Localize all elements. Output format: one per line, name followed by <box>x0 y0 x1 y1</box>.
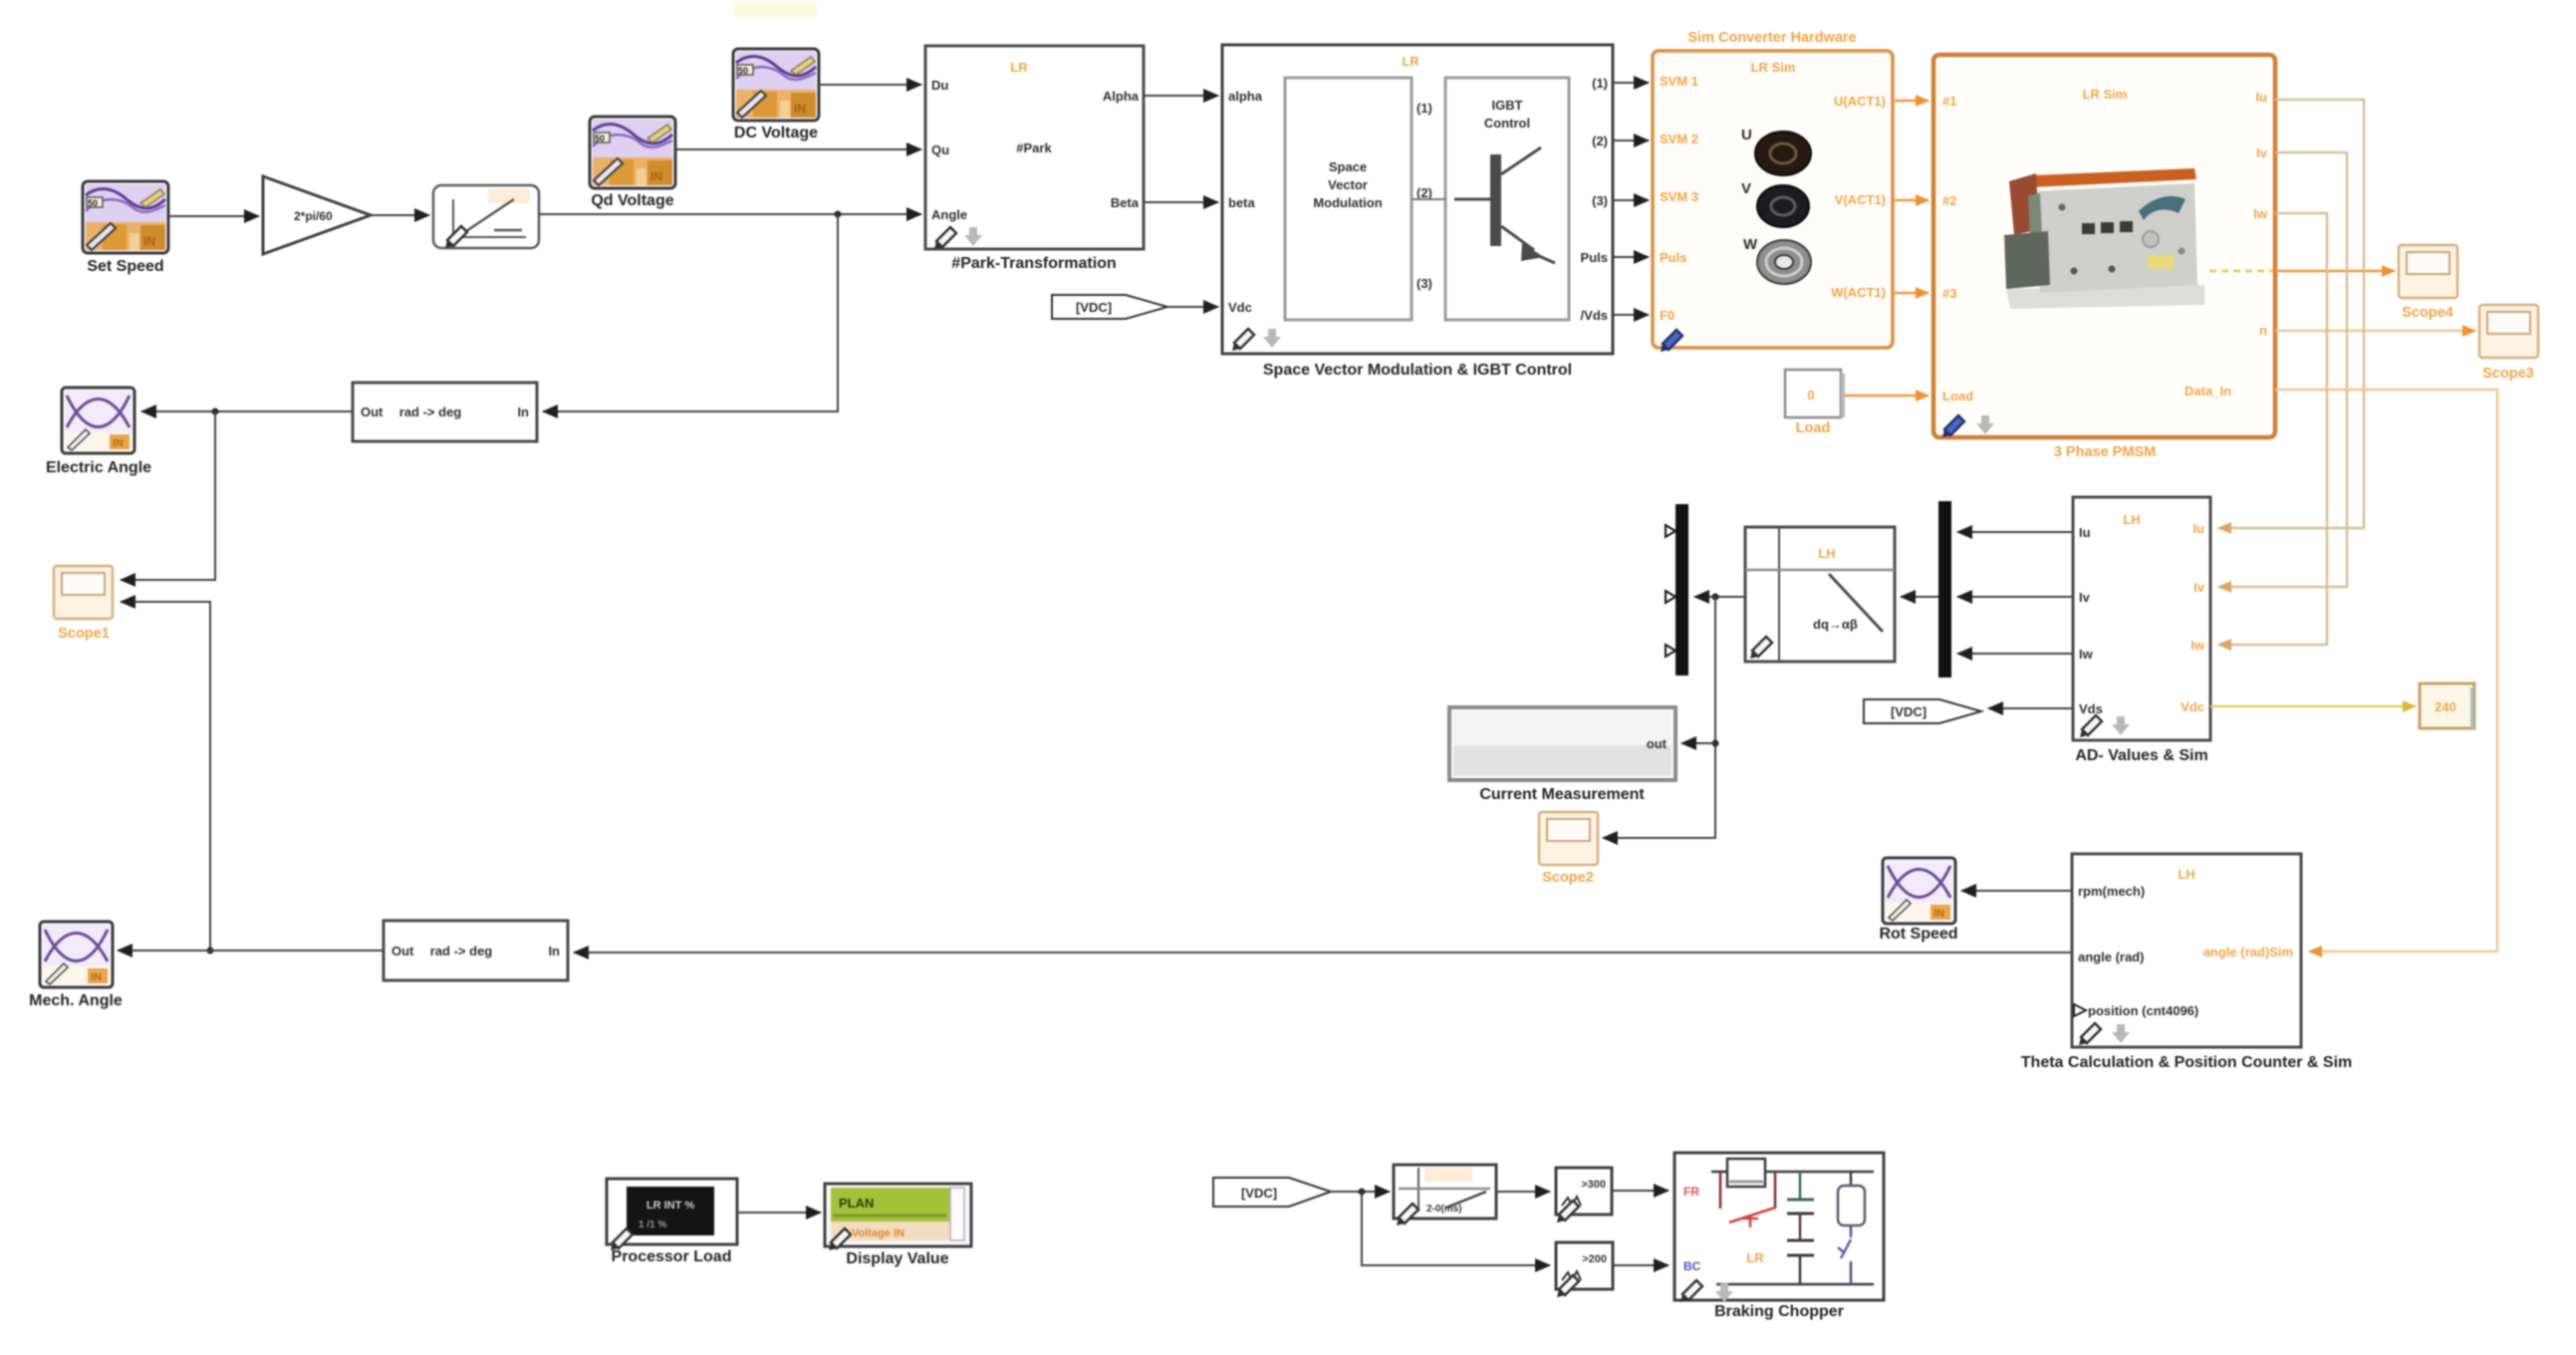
threshold block >200 <box>1556 1242 1613 1297</box>
svg-text:(2): (2) <box>1592 134 1608 148</box>
wire Park Alpha to SVM alpha <box>1144 95 1218 97</box>
svg-text:LR Sim: LR Sim <box>2083 87 2128 102</box>
wire Park Beta to SVM beta <box>1144 201 1218 203</box>
svg-text:LR: LR <box>1402 54 1419 69</box>
svg-text:In: In <box>548 944 560 958</box>
capacitor chain <box>1799 1172 1802 1199</box>
svg-text:dq→αβ: dq→αβ <box>1813 617 1858 632</box>
svg-text:LR INT %: LR INT % <box>646 1200 694 1212</box>
from tag [VDC] 3 <box>1213 1178 1331 1207</box>
svg-text:LR Sim: LR Sim <box>1751 60 1796 75</box>
Electric Angle icon <box>46 388 151 476</box>
junction on VDC wire <box>1359 1189 1366 1196</box>
svg-text:Processor Load: Processor Load <box>612 1248 732 1265</box>
chopper rate block <box>1394 1165 1496 1225</box>
wire Q Voltage to Park Qu <box>675 148 921 150</box>
svg-text:Alpha: Alpha <box>1103 89 1140 104</box>
svg-text:Puls: Puls <box>1581 250 1608 265</box>
svg-text:Du: Du <box>931 78 948 93</box>
svg-text:W(ACT1): W(ACT1) <box>1831 285 1886 300</box>
current measurement block <box>1449 707 1675 803</box>
Load block <box>1785 370 1845 436</box>
svg-text:rad -> deg: rad -> deg <box>430 944 493 958</box>
Scope3 <box>2479 305 2538 382</box>
rate limiter block <box>433 185 539 248</box>
svg-text:#1: #1 <box>1942 94 1956 109</box>
svg-text:3 Phase PMSM: 3 Phase PMSM <box>2054 444 2156 460</box>
Scope2 <box>1539 812 1598 886</box>
wire AD Iw to mux <box>1957 653 2073 655</box>
svg-text:Vdc: Vdc <box>1228 300 1252 315</box>
svg-text:Iw: Iw <box>2253 206 2268 221</box>
svg-text:U(ACT1): U(ACT1) <box>1834 94 1886 109</box>
yellow dashes from motor to edge <box>2209 270 2273 273</box>
wire processor load to display value <box>737 1212 821 1214</box>
svg-text:Load: Load <box>1796 420 1831 436</box>
wire branch angle down to Out rad->deg 1 <box>543 214 838 411</box>
svg-text:V(ACT1): V(ACT1) <box>1835 192 1886 207</box>
Scope4 <box>2399 245 2457 321</box>
wire AD Vds to VDC tag <box>1988 707 2073 709</box>
svg-text:LR: LR <box>1746 1250 1764 1265</box>
svg-text:BC: BC <box>1683 1259 1701 1273</box>
svg-text:240: 240 <box>2435 699 2456 714</box>
svg-text:Puls: Puls <box>1660 250 1686 265</box>
wire SVM out1 to converter SVM 1 <box>1613 82 1649 84</box>
inner block IGBT Control <box>1445 78 1569 320</box>
source block Set Speed <box>83 181 168 275</box>
svg-text:#3: #3 <box>1942 286 1956 301</box>
wire DC Voltage to Park Du <box>819 84 921 86</box>
svg-text:SVM 1: SVM 1 <box>1660 74 1698 89</box>
source block Q Voltage <box>590 117 675 209</box>
svg-text:[VDC]: [VDC] <box>1891 704 1927 719</box>
svg-text:Current Measurement: Current Measurement <box>1479 786 1645 803</box>
svg-text:Display Value: Display Value <box>846 1250 948 1267</box>
junction on angle wire <box>835 211 842 218</box>
bottom rail <box>1716 1283 1874 1286</box>
svg-text:>300: >300 <box>1581 1179 1606 1191</box>
wire RateLimiter to Park Angle with branch down <box>539 213 921 215</box>
svg-text:Scope4: Scope4 <box>2402 305 2453 321</box>
red legs + switch <box>1719 1172 1722 1209</box>
svg-text:W: W <box>1743 236 1758 253</box>
svg-text:Out: Out <box>361 405 384 419</box>
gain 2*pi/60 <box>263 176 371 254</box>
svg-text:(1): (1) <box>1417 101 1432 116</box>
wire AD Iu to mux <box>1957 531 2073 533</box>
svg-text:0: 0 <box>1807 388 1814 403</box>
svg-text:Sim Converter Hardware: Sim Converter Hardware <box>1687 30 1856 46</box>
from tag [VDC] 1 <box>1052 295 1167 319</box>
goto tag [VDC] 2 <box>1864 699 1981 723</box>
svg-text:Iu: Iu <box>2079 525 2091 540</box>
svg-text:rpm(mech): rpm(mech) <box>2078 884 2145 899</box>
svg-text:Scope3: Scope3 <box>2482 366 2534 382</box>
svg-text:Voltage IN: Voltage IN <box>852 1227 904 1239</box>
junction on dq output wire <box>1712 594 1719 601</box>
svg-text:rad -> deg: rad -> deg <box>399 405 462 419</box>
svg-text:F0: F0 <box>1660 308 1674 323</box>
svg-text:LH: LH <box>2178 867 2194 882</box>
svg-text:V: V <box>1741 180 1751 197</box>
svg-text:Iu: Iu <box>2255 90 2267 105</box>
svg-text:Data_In: Data_In <box>2185 384 2231 399</box>
svg-text:Modulation: Modulation <box>1313 195 1382 210</box>
wire SVM out3 to converter SVM 3 <box>1613 199 1649 201</box>
yellow wire AD to display 240 <box>2210 705 2416 708</box>
svg-text:Iv: Iv <box>2193 580 2205 595</box>
svg-text:Vdc: Vdc <box>2181 699 2204 714</box>
svg-text:Load: Load <box>1942 389 1973 404</box>
svg-text:(1): (1) <box>1592 76 1608 91</box>
Scope1 <box>54 566 113 642</box>
svg-text:#Park: #Park <box>1016 140 1052 155</box>
svg-text:2*pi/60: 2*pi/60 <box>294 209 333 223</box>
svg-text:AD- Values & Sim: AD- Values & Sim <box>2075 747 2207 764</box>
out rad->deg 2 <box>384 921 568 980</box>
wire PMSM out1 to AD in1 <box>2218 100 2364 528</box>
svg-text:PLAN: PLAN <box>839 1196 874 1211</box>
wire dq out to demux bar <box>1694 596 1745 598</box>
demux bar left <box>1666 504 1688 676</box>
junction on electric angle wire <box>212 408 219 415</box>
svg-text:Space Vector Modulation & IGBT: Space Vector Modulation & IGBT Control <box>1263 362 1572 379</box>
inner block Space Vector Modulation <box>1285 78 1412 320</box>
svg-text:Theta Calculation & Position C: Theta Calculation & Position Counter & S… <box>2021 1054 2352 1071</box>
svg-text:beta: beta <box>1228 195 1256 210</box>
faint smudge top <box>733 2 817 17</box>
out rad->deg 1 <box>353 383 537 441</box>
wire theta rpm to rot speed <box>1961 890 2072 892</box>
svg-text:Scope1: Scope1 <box>58 626 110 642</box>
svg-text:Braking Chopper: Braking Chopper <box>1714 1303 1844 1320</box>
svg-text:[VDC]: [VDC] <box>1241 1186 1277 1201</box>
wire Out rad->deg 1 to Electric Angle scope <box>141 410 353 412</box>
svg-text:1 /1 %: 1 /1 % <box>639 1219 666 1230</box>
source block DC Voltage <box>733 49 819 141</box>
wire VDC tag to SVM Vdc <box>1167 306 1218 308</box>
svg-text:Electric Angle: Electric Angle <box>46 459 151 476</box>
wire electric angle branch to Scope1 in1 <box>121 411 215 580</box>
wire VDC branch down to threshold 200 <box>1362 1192 1550 1265</box>
wire SVM /Vds to converter F0 <box>1613 314 1649 316</box>
svg-text:Vector: Vector <box>1328 177 1368 192</box>
svg-text:Control: Control <box>1484 116 1530 131</box>
wire PMSM out3 to AD in3 <box>2218 213 2327 645</box>
IGBT transistor icon <box>1454 198 1490 201</box>
wire branch down from dq output to Scope2 <box>1603 597 1715 838</box>
svg-text:n: n <box>2259 323 2267 338</box>
svg-text:DC Voltage: DC Voltage <box>734 125 818 141</box>
wire Set Speed to Gain <box>168 215 259 217</box>
wire Gain to Rate Limiter <box>371 214 429 216</box>
svg-text:[VDC]: [VDC] <box>1076 300 1112 315</box>
svg-text:SVM 3: SVM 3 <box>1660 189 1698 204</box>
wire PMSM Data to Theta angle-sim input <box>2275 390 2497 951</box>
svg-text:#2: #2 <box>1942 193 1956 208</box>
svg-text:Iw: Iw <box>2190 638 2205 653</box>
display 240 <box>2420 683 2474 728</box>
wire Load to PMSM <box>1845 395 1929 398</box>
wire converter U(ACT1) to PMSM #1 <box>1893 100 1929 103</box>
wire PMSM out2 to AD in2 <box>2218 152 2347 587</box>
wire mech angle branch to Scope1 in2 <box>121 602 210 950</box>
svg-text:LH: LH <box>2123 512 2140 527</box>
svg-text:2-0(ms): 2-0(ms) <box>1426 1204 1462 1215</box>
svg-text:position (cnt4096): position (cnt4096) <box>2088 1003 2198 1018</box>
svg-text:In: In <box>517 405 529 419</box>
top rail <box>1711 1171 1874 1174</box>
svg-text:Angle: Angle <box>931 207 967 222</box>
wire converter W(ACT1) to PMSM #3 <box>1893 292 1929 295</box>
wire between inner blocks <box>1412 198 1445 200</box>
svg-text:alpha: alpha <box>1228 89 1263 104</box>
svg-text:Iw: Iw <box>2079 647 2094 662</box>
Mech Angle icon <box>29 922 123 1009</box>
svg-text:angle (rad): angle (rad) <box>2078 949 2144 964</box>
junction on mech angle wire <box>207 948 214 954</box>
svg-text:(3): (3) <box>1417 276 1432 291</box>
svg-text:IGBT: IGBT <box>1491 98 1522 113</box>
svg-text:Out: Out <box>391 944 414 958</box>
svg-text:Qd Voltage: Qd Voltage <box>591 192 673 209</box>
svg-text:Scope2: Scope2 <box>1542 870 1594 886</box>
svg-text:#Park-Transformation: #Park-Transformation <box>951 255 1116 272</box>
wire AD Iv to mux <box>1957 596 2073 598</box>
svg-text:/Vds: /Vds <box>1581 308 1608 323</box>
wire converter V(ACT1) to PMSM #2 <box>1893 199 1929 202</box>
svg-text:Mech. Angle: Mech. Angle <box>29 992 123 1009</box>
junction at current measurement stub <box>1712 740 1719 747</box>
svg-text:angle (rad)Sim: angle (rad)Sim <box>2203 945 2293 959</box>
svg-text:U: U <box>1741 127 1752 143</box>
svg-text:SVM 2: SVM 2 <box>1660 132 1698 146</box>
svg-text:(2): (2) <box>1417 185 1432 200</box>
svg-text:Iu: Iu <box>2192 521 2204 536</box>
svg-text:Space: Space <box>1329 159 1367 174</box>
long wire theta angle(rad) to out-rad-deg 2 <box>574 951 2072 953</box>
threshold block >300 <box>1556 1168 1612 1222</box>
svg-text:Iv: Iv <box>2256 145 2268 160</box>
wire PMSM speed out to Scope3 <box>2275 330 2475 333</box>
wire SVM out2 to converter SVM 2 <box>1613 139 1649 141</box>
wire out2 to mech angle <box>118 949 384 951</box>
svg-text:Vds: Vds <box>2079 701 2103 716</box>
svg-text:Beta: Beta <box>1111 195 1140 210</box>
wire bar2 to dq <box>1901 596 1938 598</box>
svg-text:LH: LH <box>1818 546 1835 561</box>
wire PMSM torque out to Scope4 <box>2275 270 2395 273</box>
wire SVM Puls to converter Puls <box>1613 256 1649 258</box>
stub to current measurement <box>1681 742 1715 744</box>
mux bar right <box>1938 501 1951 677</box>
svg-text:Iv: Iv <box>2079 590 2091 605</box>
svg-text:Rot Speed: Rot Speed <box>1879 926 1957 943</box>
svg-text:>200: >200 <box>1582 1253 1607 1265</box>
svg-text:Set Speed: Set Speed <box>87 258 163 275</box>
svg-text:out: out <box>1647 736 1668 751</box>
svg-text:Qu: Qu <box>931 142 949 157</box>
right resistor + switch <box>1850 1172 1853 1186</box>
svg-text:LR: LR <box>1010 60 1028 75</box>
dq transform block <box>1745 527 1895 662</box>
svg-text:(3): (3) <box>1592 193 1608 208</box>
brake resistor <box>1727 1159 1765 1187</box>
motor photo approximation <box>2004 168 2204 309</box>
svg-text:FR: FR <box>1683 1185 1699 1199</box>
